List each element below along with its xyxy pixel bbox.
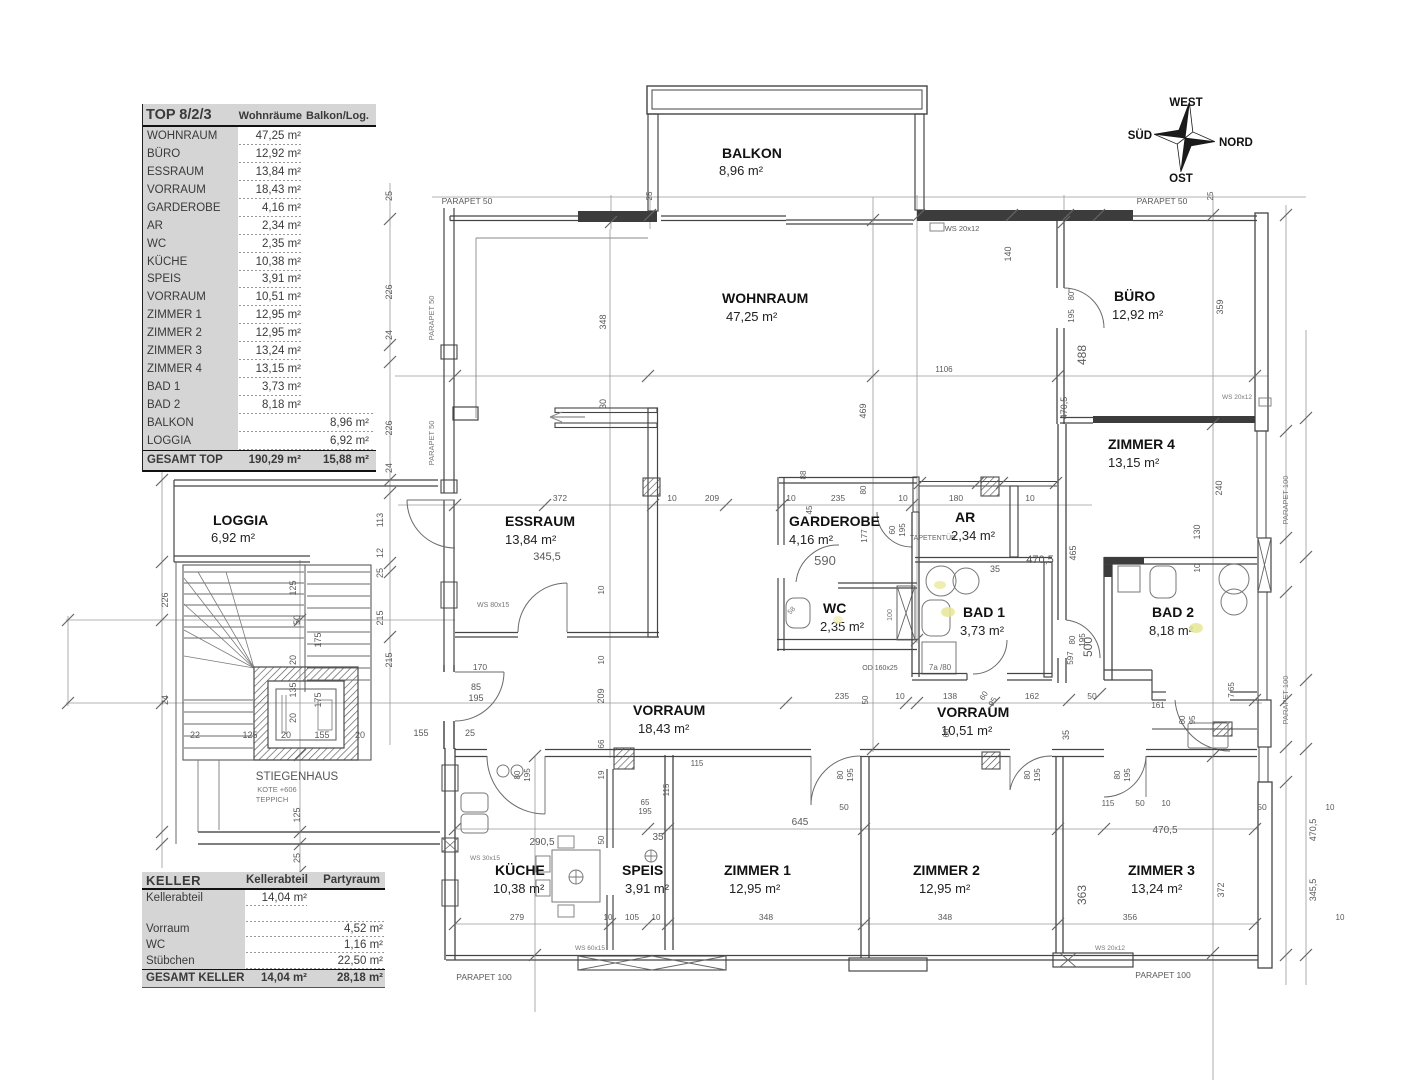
svg-text:195: 195 <box>468 693 483 703</box>
svg-text:10: 10 <box>652 913 661 922</box>
svg-text:226: 226 <box>384 284 394 299</box>
svg-text:ZIMMER 4: ZIMMER 4 <box>1108 436 1175 452</box>
svg-text:WS 80x15: WS 80x15 <box>477 602 509 609</box>
buero west wall <box>1057 221 1064 424</box>
south wall window band kitchen <box>575 945 726 970</box>
svg-text:19: 19 <box>597 770 606 779</box>
loggia walls <box>174 480 438 562</box>
niche pier hatched <box>1213 722 1232 736</box>
svg-text:161: 161 <box>1151 701 1165 710</box>
north wall with window bands <box>450 216 1257 224</box>
svg-text:597: 597 <box>1066 651 1075 665</box>
room label ZIMMER 2 <box>913 862 980 896</box>
room label BAD 1 <box>960 604 1005 638</box>
bad1 south wall <box>912 674 1052 681</box>
svg-text:162: 162 <box>1025 691 1039 701</box>
elevator shaft hatched walls <box>254 667 358 760</box>
svg-text:13,15 m²: 13,15 m² <box>1108 455 1160 470</box>
room label ZIMMER 1 <box>724 862 791 896</box>
room label BAD 2 <box>1149 604 1194 638</box>
svg-text:25: 25 <box>292 853 302 863</box>
svg-text:ZIMMER 1: ZIMMER 1 <box>724 862 791 878</box>
svg-text:469: 469 <box>858 403 868 418</box>
svg-text:140: 140 <box>1003 246 1013 261</box>
svg-text:138: 138 <box>943 691 957 701</box>
svg-text:60: 60 <box>1178 715 1187 724</box>
room label BALKON <box>719 145 782 178</box>
bad2 south wall <box>1104 670 1257 700</box>
svg-text:345,5: 345,5 <box>1308 879 1318 902</box>
svg-text:235: 235 <box>835 691 849 701</box>
svg-text:VORRAUM: VORRAUM <box>633 702 705 718</box>
svg-text:10: 10 <box>786 493 796 503</box>
svg-text:470,5: 470,5 <box>1026 554 1054 566</box>
dimension ticks <box>62 209 1312 961</box>
svg-text:PARAPET 50: PARAPET 50 <box>427 296 436 341</box>
svg-text:ZIMMER 2: ZIMMER 2 <box>913 862 980 878</box>
room label WOHNRAUM <box>722 290 808 324</box>
svg-text:10: 10 <box>1336 913 1345 922</box>
svg-text:240: 240 <box>1214 480 1224 495</box>
svg-text:10: 10 <box>1193 563 1202 572</box>
svg-text:226: 226 <box>160 592 170 607</box>
essraum north-west door arc <box>407 500 455 548</box>
svg-text:235: 235 <box>831 493 845 503</box>
svg-text:155: 155 <box>314 730 329 740</box>
zimmer2-zimmer3 divider <box>1056 756 1063 953</box>
zimmer1 door arc <box>811 756 860 805</box>
svg-text:170: 170 <box>473 662 487 672</box>
svg-text:226: 226 <box>384 420 394 435</box>
svg-text:115: 115 <box>1102 799 1115 808</box>
compass rose <box>1150 98 1219 175</box>
essraum south wall <box>455 633 659 638</box>
svg-text:PARAPET 100: PARAPET 100 <box>456 972 512 982</box>
svg-text:13,24 m²: 13,24 m² <box>1131 881 1183 896</box>
svg-text:177: 177 <box>860 529 869 543</box>
window label WS 20x12 north <box>930 223 979 233</box>
svg-text:209: 209 <box>596 688 606 703</box>
svg-text:50: 50 <box>1087 691 1097 701</box>
svg-text:GARDEROBE: GARDEROBE <box>789 513 880 529</box>
label STIEGENHAUS <box>256 771 339 804</box>
svg-text:25: 25 <box>465 728 475 738</box>
svg-text:195: 195 <box>638 807 652 816</box>
svg-text:WC: WC <box>823 600 846 616</box>
svg-text:80: 80 <box>1023 770 1032 779</box>
svg-text:SPEIS: SPEIS <box>622 862 663 878</box>
svg-text:BALKON: BALKON <box>722 145 782 161</box>
svg-text:BAD 2: BAD 2 <box>1152 604 1194 620</box>
kueche-speis divider <box>607 769 613 950</box>
svg-text:WS 20x12: WS 20x12 <box>945 224 980 233</box>
svg-text:BÜRO: BÜRO <box>1114 288 1155 304</box>
bad1 west wall <box>912 512 919 677</box>
svg-text:356: 356 <box>1123 912 1137 922</box>
svg-text:155: 155 <box>413 728 428 738</box>
svg-text:115: 115 <box>691 759 704 768</box>
svg-text:209: 209 <box>705 493 719 503</box>
garderobe-wc divider wall <box>838 583 917 588</box>
svg-text:80: 80 <box>859 485 868 494</box>
svg-text:50: 50 <box>597 835 606 844</box>
bad2 fixtures <box>1118 564 1249 615</box>
svg-text:85: 85 <box>471 682 481 692</box>
svg-text:35: 35 <box>1061 730 1071 740</box>
svg-text:50: 50 <box>861 695 870 704</box>
svg-text:80: 80 <box>836 770 845 779</box>
svg-text:10: 10 <box>604 913 613 922</box>
svg-text:PARAPET 100: PARAPET 100 <box>1281 476 1290 525</box>
svg-text:WEST: WEST <box>1169 97 1202 109</box>
svg-text:348: 348 <box>598 314 608 329</box>
svg-text:25: 25 <box>1206 191 1215 200</box>
svg-text:470,5: 470,5 <box>1308 819 1318 842</box>
bad1 east wall <box>1044 562 1052 677</box>
svg-text:80: 80 <box>1068 635 1077 644</box>
svg-text:2,34 m²: 2,34 m² <box>951 528 996 543</box>
svg-text:WS 20x12: WS 20x12 <box>1222 394 1252 401</box>
svg-text:180: 180 <box>949 493 963 503</box>
room label ZIMMER 4 <box>1108 436 1175 470</box>
shaft with cross <box>887 586 915 640</box>
zimmer1-zimmer2 divider <box>861 756 869 958</box>
ar pier hatched <box>981 477 999 496</box>
svg-text:PARAPET 50: PARAPET 50 <box>442 196 493 206</box>
svg-text:130: 130 <box>1192 524 1202 539</box>
zimmer3 table <box>1188 723 1228 748</box>
svg-text:470,5: 470,5 <box>1059 397 1069 420</box>
svg-text:348: 348 <box>938 912 952 922</box>
svg-text:AR: AR <box>955 509 975 525</box>
svg-text:345,5: 345,5 <box>533 551 561 563</box>
svg-text:ESSRAUM: ESSRAUM <box>505 513 575 529</box>
room label GARDEROBE <box>789 513 880 547</box>
table KELLER <box>142 872 385 988</box>
svg-text:6,92 m²: 6,92 m² <box>211 530 256 545</box>
zimmer2 door arc <box>1010 756 1052 790</box>
svg-text:24: 24 <box>160 695 170 705</box>
west wall corridor segments <box>444 665 454 749</box>
room label BUERO <box>1112 288 1164 322</box>
north wall pier east <box>917 210 1133 221</box>
svg-text:60: 60 <box>888 525 897 534</box>
svg-text:PARAPET 50: PARAPET 50 <box>1137 196 1188 206</box>
svg-text:NORD: NORD <box>1219 137 1253 149</box>
wc south wall <box>777 640 917 650</box>
dim grid lines <box>66 183 1306 1080</box>
svg-text:STIEGENHAUS: STIEGENHAUS <box>256 771 339 783</box>
svg-text:WS 20x12: WS 20x12 <box>1095 945 1125 952</box>
svg-text:WOHNRAUM: WOHNRAUM <box>722 290 808 306</box>
svg-text:80: 80 <box>513 770 522 779</box>
svg-text:215: 215 <box>375 610 385 625</box>
dimension labels horizontal <box>190 365 1345 922</box>
svg-text:105: 105 <box>625 912 639 922</box>
room label VORRAUM 10,51 <box>937 704 1009 738</box>
svg-text:WS 30x15: WS 30x15 <box>470 855 500 862</box>
svg-text:195: 195 <box>1033 768 1042 782</box>
bad2 lower niche wall <box>1152 728 1257 730</box>
buero south wall / zimmer4 north wall <box>1060 416 1255 423</box>
garderobe north wall <box>779 477 919 512</box>
room label ZIMMER 3 <box>1128 862 1195 896</box>
kitchen door arc <box>487 756 545 814</box>
zimmer4 west wall <box>1058 424 1066 683</box>
svg-text:135: 135 <box>288 682 298 697</box>
svg-text:35: 35 <box>990 564 1000 574</box>
speis-zimmer1 divider <box>665 755 673 950</box>
svg-text:488: 488 <box>1075 345 1089 365</box>
south wall pier zimmer1 <box>849 958 927 971</box>
west wall lower (kitchen) <box>442 748 458 960</box>
corridor south wall (rooms north wall) <box>455 750 1257 757</box>
svg-text:279: 279 <box>510 912 524 922</box>
corridor pier hatched kitchen <box>614 748 634 769</box>
svg-text:25: 25 <box>384 191 394 201</box>
svg-text:195: 195 <box>523 768 532 782</box>
svg-text:SÜD: SÜD <box>1128 129 1152 142</box>
room label KUECHE <box>493 862 545 896</box>
balcony parapet wall <box>647 86 927 211</box>
svg-text:4,16 m²: 4,16 m² <box>789 532 834 547</box>
west wall step detail <box>453 407 478 420</box>
svg-text:88: 88 <box>799 470 808 479</box>
svg-text:20: 20 <box>288 713 298 723</box>
svg-text:12: 12 <box>375 548 385 558</box>
svg-text:25: 25 <box>645 191 654 200</box>
svg-text:10: 10 <box>597 585 606 594</box>
bad1 north wall <box>915 558 1052 563</box>
svg-text:363: 363 <box>1075 885 1089 905</box>
svg-text:20: 20 <box>281 730 291 740</box>
svg-text:100: 100 <box>887 609 894 621</box>
wc door arc <box>796 545 839 582</box>
svg-text:35: 35 <box>652 832 664 843</box>
svg-text:24: 24 <box>384 330 394 340</box>
svg-text:195: 195 <box>1067 309 1076 323</box>
stair steps upper flight <box>184 572 304 638</box>
stair steps right flight <box>307 572 370 680</box>
south-west boundary walls <box>198 832 440 844</box>
svg-text:12,95 m²: 12,95 m² <box>729 881 781 896</box>
svg-text:215: 215 <box>384 652 394 667</box>
south wall pier zimmer2-3 <box>1053 945 1133 967</box>
zimmer3 door arc <box>1104 756 1146 797</box>
wc toilet <box>786 598 810 628</box>
west facade line below loggia <box>176 562 219 844</box>
svg-text:195: 195 <box>898 523 907 537</box>
svg-text:3,91 m²: 3,91 m² <box>625 881 670 896</box>
svg-text:20: 20 <box>288 655 298 665</box>
svg-text:50: 50 <box>1257 802 1267 812</box>
svg-text:3,73 m²: 3,73 m² <box>960 623 1005 638</box>
svg-text:348: 348 <box>759 912 773 922</box>
svg-text:465: 465 <box>1068 545 1078 560</box>
svg-text:470,5: 470,5 <box>1152 825 1177 836</box>
stairwell outline <box>183 565 371 760</box>
svg-text:12,92 m²: 12,92 m² <box>1112 307 1164 322</box>
svg-text:372: 372 <box>1216 882 1226 897</box>
svg-text:24: 24 <box>384 463 394 473</box>
svg-text:50: 50 <box>292 615 302 625</box>
room label VORRAUM 18,43 <box>633 702 705 736</box>
corridor pier hatched zimmer2 <box>982 752 1000 769</box>
svg-text:115: 115 <box>662 783 671 796</box>
bad1 door arc <box>973 640 1007 708</box>
ar north wall with hatched pier <box>919 482 1057 487</box>
buero door arc <box>1064 288 1104 328</box>
svg-text:22: 22 <box>190 730 200 740</box>
stair winder fan <box>184 572 254 748</box>
room label AR <box>951 509 996 543</box>
west outer wall upper <box>441 208 457 493</box>
essraum east pier hatched <box>643 478 660 496</box>
svg-text:125: 125 <box>242 730 257 740</box>
svg-text:10: 10 <box>898 493 908 503</box>
bad2 west wall <box>1104 557 1112 680</box>
bad1 fixtures <box>922 566 979 674</box>
svg-text:8,18 m²: 8,18 m² <box>1149 623 1194 638</box>
svg-text:50: 50 <box>839 802 849 812</box>
room label LOGGIA <box>211 512 268 545</box>
svg-text:PARAPET 50: PARAPET 50 <box>427 421 436 466</box>
garderobe west wall <box>778 477 784 651</box>
svg-text:OD 160x25: OD 160x25 <box>862 665 898 672</box>
svg-text:66: 66 <box>597 739 606 748</box>
svg-text:10: 10 <box>597 655 606 664</box>
svg-text:7,65: 7,65 <box>1227 682 1236 698</box>
ar east wall <box>1010 486 1018 557</box>
svg-text:8,96 m²: 8,96 m² <box>719 163 764 178</box>
svg-text:10: 10 <box>1025 493 1035 503</box>
svg-text:LOGGIA: LOGGIA <box>213 512 268 528</box>
svg-text:PARAPET 100: PARAPET 100 <box>1135 970 1191 980</box>
svg-text:18,43 m²: 18,43 m² <box>638 721 690 736</box>
svg-text:58: 58 <box>787 606 798 617</box>
svg-text:195: 195 <box>846 768 855 782</box>
bad2 door arc <box>1175 700 1230 751</box>
svg-text:10: 10 <box>1326 803 1335 812</box>
svg-text:645: 645 <box>792 817 809 828</box>
entrance door arc <box>455 672 504 721</box>
svg-text:WS 60x15: WS 60x15 <box>575 945 605 952</box>
svg-text:47,25 m²: 47,25 m² <box>726 309 778 324</box>
svg-text:10: 10 <box>895 691 905 701</box>
elevator car <box>276 689 336 740</box>
svg-text:KÜCHE: KÜCHE <box>495 862 545 878</box>
svg-text:372: 372 <box>553 493 567 503</box>
svg-text:590: 590 <box>814 553 836 568</box>
svg-text:10: 10 <box>667 493 677 503</box>
svg-text:KOTE +606: KOTE +606 <box>257 785 296 794</box>
svg-text:65: 65 <box>641 798 650 807</box>
svg-text:20: 20 <box>355 730 365 740</box>
entry arrow <box>550 412 585 422</box>
svg-text:10,38 m²: 10,38 m² <box>493 881 545 896</box>
south outer wall <box>446 956 1258 961</box>
room label ESSRAUM <box>505 513 575 547</box>
svg-text:125: 125 <box>288 580 298 595</box>
window label WS 20x12 east <box>1222 394 1271 406</box>
svg-text:12,95 m²: 12,95 m² <box>919 881 971 896</box>
north wall pier west <box>578 211 657 222</box>
speis fitting <box>645 850 657 862</box>
svg-text:7a /80: 7a /80 <box>929 663 952 672</box>
room label SPEIS <box>622 862 670 896</box>
svg-text:80: 80 <box>1067 291 1076 300</box>
svg-text:50: 50 <box>1135 798 1145 808</box>
svg-text:175: 175 <box>313 632 323 647</box>
svg-text:45: 45 <box>805 505 814 514</box>
svg-text:TEPPICH: TEPPICH <box>256 795 289 804</box>
svg-text:ZIMMER 3: ZIMMER 3 <box>1128 862 1195 878</box>
svg-text:175: 175 <box>313 692 323 707</box>
svg-text:195: 195 <box>1123 768 1132 782</box>
svg-text:13,84 m²: 13,84 m² <box>505 532 557 547</box>
svg-text:VORRAUM: VORRAUM <box>937 704 1009 720</box>
svg-text:290,5: 290,5 <box>529 837 554 848</box>
svg-text:66: 66 <box>942 728 951 737</box>
svg-text:1106: 1106 <box>935 365 953 374</box>
zimmer4 door arc <box>1066 620 1100 658</box>
garderobe door arc <box>877 512 912 547</box>
svg-text:30: 30 <box>598 399 608 409</box>
kitchen table and chairs <box>536 836 600 917</box>
kitchen counter and sink <box>461 765 523 833</box>
svg-text:TAPETENTÜR: TAPETENTÜR <box>910 534 956 542</box>
svg-text:25: 25 <box>375 568 385 578</box>
svg-text:113: 113 <box>375 513 385 527</box>
svg-text:359: 359 <box>1215 299 1225 314</box>
freestanding wall wohnraum-vorraum <box>555 408 658 637</box>
essraum south door arc <box>473 583 567 672</box>
svg-text:BAD 1: BAD 1 <box>963 604 1005 620</box>
essraum west wall <box>441 500 509 665</box>
table TOP 8/2/3 <box>142 104 376 472</box>
svg-text:10: 10 <box>1162 799 1171 808</box>
east outer wall segments <box>1255 213 1272 968</box>
bad2 north wall <box>1104 557 1257 564</box>
svg-text:125: 125 <box>292 807 302 822</box>
highlight marks <box>833 581 1203 633</box>
svg-text:500: 500 <box>1081 637 1095 657</box>
room label WC <box>820 600 865 634</box>
svg-text:OST: OST <box>1169 173 1193 185</box>
dimension labels vertical <box>160 191 1318 905</box>
svg-text:80: 80 <box>1113 770 1122 779</box>
